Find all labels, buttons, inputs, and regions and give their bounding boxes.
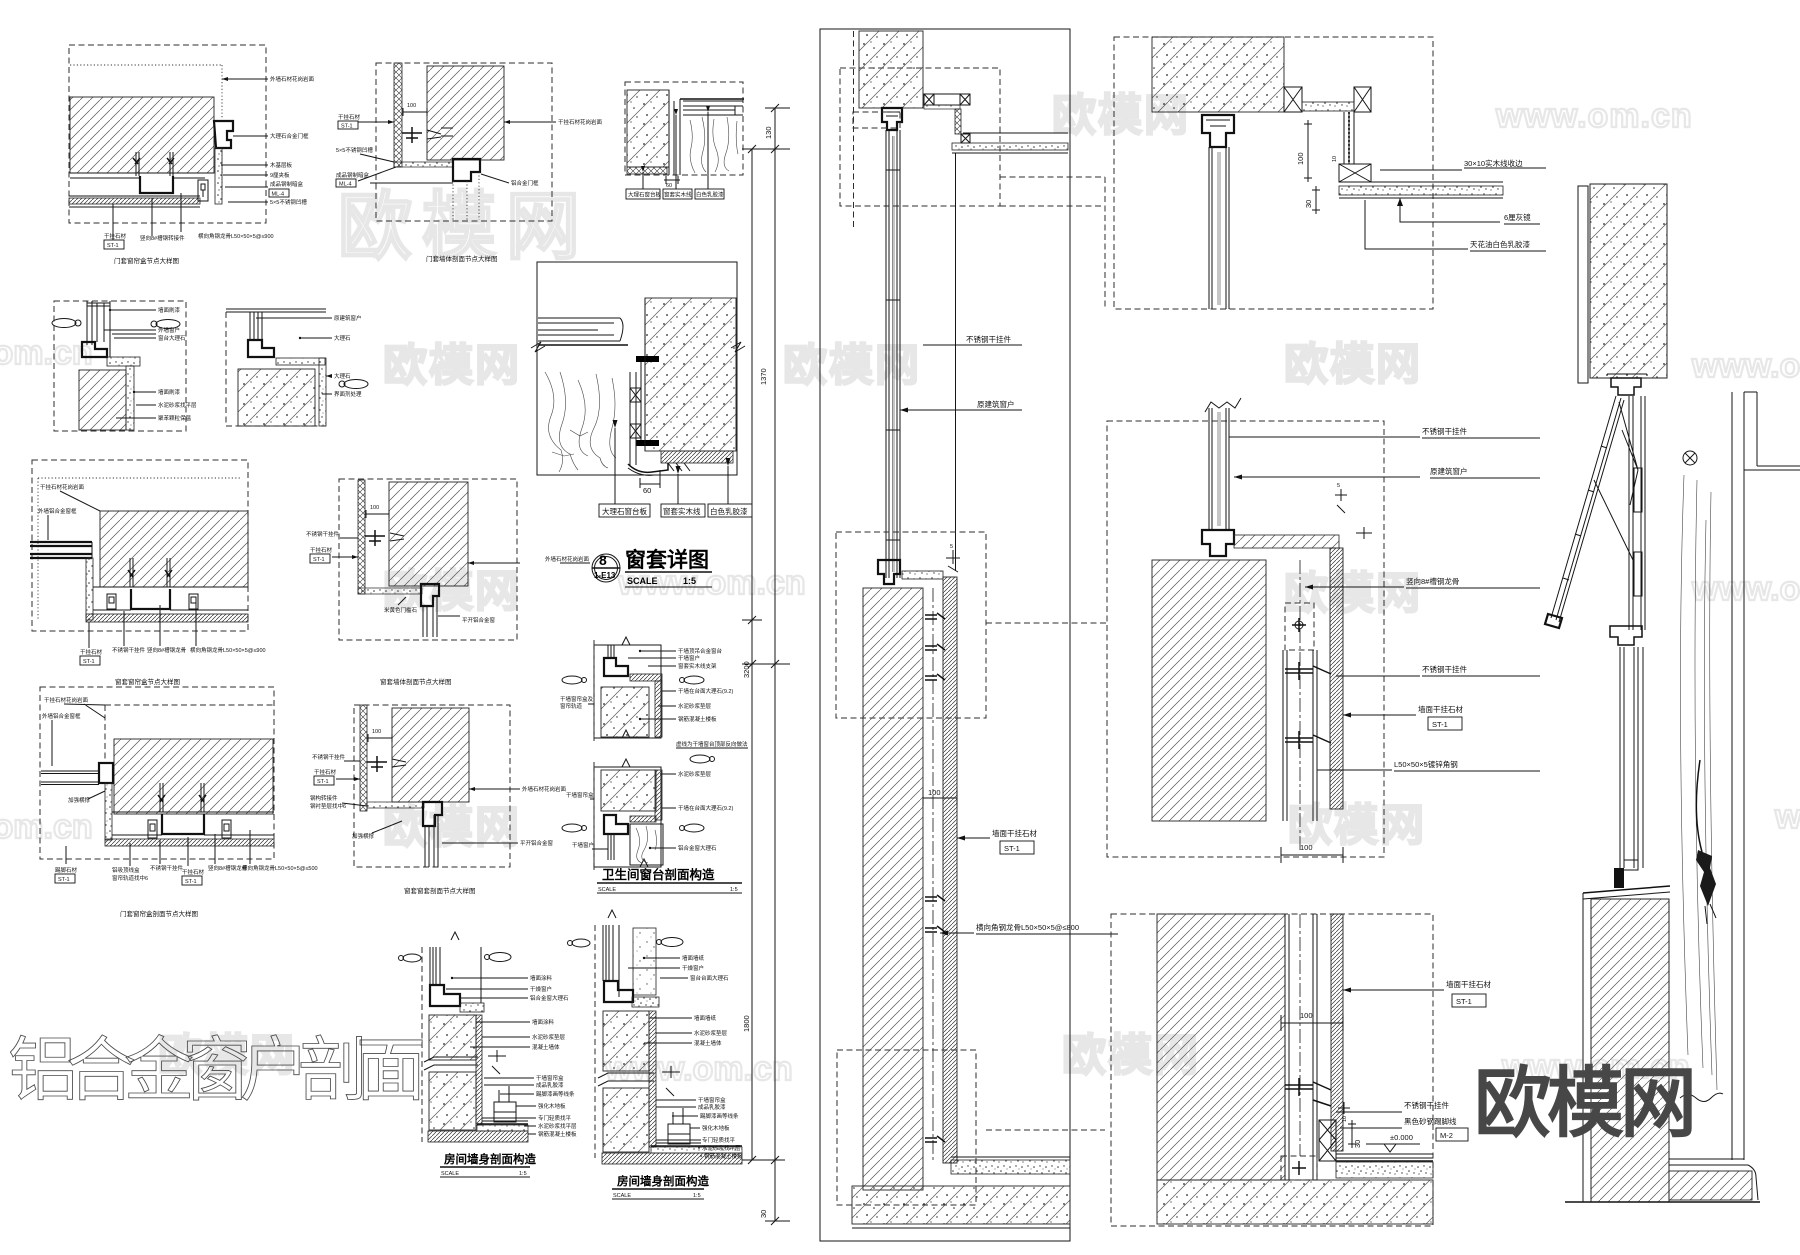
column B dim 30 rot [1312,186,1320,214]
D5 leaders right [256,318,332,394]
D14 concrete column upper [603,1011,649,1071]
svg-text:窗套详图: 窗套详图 [625,548,709,572]
column A floor screed band [951,1160,1070,1174]
D1 inner dotted datum [70,65,222,196]
svg-text:铝合金窗大理石: 铝合金窗大理石 [530,994,569,1002]
svg-text:不锈钢干挂件: 不锈钢干挂件 [150,864,184,872]
D9 dim 100 [366,510,389,518]
svg-text:窗帘轨道找中6: 窗帘轨道找中6 [112,874,148,882]
D1 curtain box channel [140,176,173,193]
D14 break gap [598,1073,654,1086]
column B ceiling cross block 2 [1354,87,1371,112]
svg-text:干挂石材: 干挂石材 [80,648,103,656]
D9 anchor hardware [365,530,385,546]
svg-text:1800: 1800 [742,1015,751,1032]
D12 lower frame [594,767,661,867]
svg-text:强化木地板: 强化木地板 [702,1124,730,1132]
D12 upper right labels [628,651,676,719]
D3 dim 60 [664,176,680,184]
column A mullion [886,130,900,578]
D2 wall hatched block [427,66,504,160]
D14 sill mortar band [632,997,659,1007]
DIMCHAIN [742,104,790,1225]
D3 bottom crosshatch strip [627,167,667,174]
svg-text:墙面刷漆: 墙面刷漆 [158,388,181,396]
D2 floor band [394,162,453,167]
D4 interior oval symbol [52,319,76,328]
column B mullion [1209,147,1229,309]
D8 window board left [30,542,92,558]
svg-text:30: 30 [759,1210,768,1218]
D5 dashed part-boundary [226,312,326,426]
svg-text:100: 100 [407,103,416,109]
elevation curtain rod end [1683,451,1697,465]
svg-text:www.om.cn: www.om.cn [0,334,93,372]
D7 title block circle [592,554,620,582]
BIGTEXT [8,1031,1693,1147]
column A dim 100 [923,790,957,806]
column B channel bolt [1292,618,1306,632]
svg-text:界面剂处理: 界面剂处理 [334,390,362,398]
column B label 6厘灰镜 [1400,198,1500,222]
svg-text:竖向8#槽钢龙骨: 竖向8#槽钢龙骨 [147,646,187,654]
svg-text:不锈钢干挂件: 不锈钢干挂件 [1404,1100,1449,1110]
elevation sill line [1583,886,1670,893]
detail D1 door-head curtain box : dashed boundary [69,45,266,223]
svg-text:横向角钢龙骨L50×50×5@≤500: 横向角钢龙骨L50×50×5@≤500 [242,864,318,872]
svg-text:房间墙身剖面构造: 房间墙身剖面构造 [617,1174,709,1188]
svg-text:干墙在台面大理石(9.2): 干墙在台面大理石(9.2) [678,687,733,695]
D2 door frame profile [453,159,480,181]
elevation base moulding [1748,1165,1758,1200]
svg-text:门套窗帘盒剖面节点大样图: 门套窗帘盒剖面节点大样图 [120,909,198,918]
svg-text:横向角钢龙骨L50×50×5@≤900: 横向角钢龙骨L50×50×5@≤900 [198,232,274,240]
svg-text:ST-1: ST-1 [83,659,95,665]
column A lower ceiling line [963,132,1068,134]
D12 lower concrete block [601,770,656,811]
svg-text:成品乳胶漆: 成品乳胶漆 [536,1081,564,1089]
svg-text:ST-1: ST-1 [58,877,70,883]
D4 exterior oval symbol [156,320,180,329]
elevation lower window lock [1614,868,1624,888]
dimension tick y1221 [765,1217,790,1225]
svg-text:木基层板: 木基层板 [270,161,293,169]
svg-text:1:5: 1:5 [730,887,738,893]
elevation lower window [1620,647,1643,868]
column B floor lines [1336,1154,1433,1158]
D7 sill nosing profile [628,463,668,472]
elevation curtain folds [1681,475,1717,1090]
D5 frame profile [248,340,274,357]
D12 lower oval [690,755,710,763]
D1 door jamb dotted strip [215,148,222,204]
D11 door frame profile [423,802,442,826]
svg-text:天花油白色乳胶漆: 天花油白色乳胶漆 [1470,239,1530,249]
column B ceiling cross block 3 [1339,164,1371,182]
D10 window board left [41,771,99,785]
column A cavity centerline [932,588,934,1160]
svg-text:L50×50×5镀锌角钢: L50×50×5镀锌角钢 [1394,759,1458,769]
svg-text:干挂石材: 干挂石材 [310,546,333,554]
svg-text:加强横撑: 加强横撑 [68,796,91,804]
svg-text:外墙窗户: 外墙窗户 [158,326,180,334]
svg-text:不锈钢干挂件: 不锈钢干挂件 [112,646,146,654]
elevation opened sash [1551,396,1624,622]
svg-text:干墙窗帘盒: 干墙窗帘盒 [698,1096,726,1104]
D8 curtain channel [131,589,170,609]
column B middle concrete block [1152,560,1266,821]
svg-text:混凝土墙体: 混凝土墙体 [532,1043,560,1051]
svg-text:钢衬垫层找中6: 钢衬垫层找中6 [310,802,346,810]
D9 right leader [468,562,520,564]
svg-text:平开铝合金窗: 平开铝合金窗 [462,616,496,624]
detail D5 window jamb plan B : top wall line [226,309,326,312]
column A top dashed box [840,68,1000,206]
svg-text:窗套窗套剖面节点大样图: 窗套窗套剖面节点大样图 [404,886,476,895]
svg-text:竖向8#槽钢龙骨: 竖向8#槽钢龙骨 [1406,576,1459,586]
detail D4 window jamb plan : dashed boundary [54,301,186,431]
svg-text:SCALE: SCALE [598,887,616,893]
D13 floor lines [482,1118,528,1121]
COLB [1107,37,1546,1226]
D8 floor hatch strip [86,614,248,622]
D3 label boxes [626,189,660,199]
column B bottom concrete block [1157,914,1285,1180]
D2 stone strip crosshatch [394,63,402,167]
svg-text:5: 5 [950,544,953,550]
column B bottom dashed box [1111,914,1433,1226]
svg-text:5×5不锈钢凹槽: 5×5不锈钢凹槽 [270,198,307,206]
D1 wall hatched block [70,97,214,173]
D9 door leaf lines [423,596,437,637]
svg-text:100: 100 [928,788,941,797]
D14 floor screed band [651,1147,742,1153]
D11 door leaf lines [425,815,438,867]
D8 jamb speckle strip [86,558,93,620]
svg-text:强化木地板: 强化木地板 [538,1102,566,1110]
ROW4 [40,637,748,918]
D10 jamb speckle strip [105,783,112,840]
svg-text:钢筋混凝土楼板: 钢筋混凝土楼板 [704,1152,743,1160]
D2 left leaders [358,122,453,183]
svg-text:成品乳胶漆: 成品乳胶漆 [698,1103,726,1111]
D5 exterior oval [344,380,368,389]
D12 lower window frame profile [604,815,628,834]
D13 concrete column lower [429,1072,476,1130]
D4 window frame lines [87,301,110,357]
column A bottom window head profile [878,560,900,584]
D12 lower labels [650,774,676,848]
svg-text:干燥窗户: 干燥窗户 [682,964,704,972]
svg-text:30: 30 [1304,200,1313,208]
column B ceiling cross block 1 [1284,87,1302,112]
column B middle stone strip [1330,548,1343,809]
D3 sill board profile [683,101,743,115]
D14 small dims [662,1066,680,1096]
svg-text:大理石窗台板: 大理石窗台板 [628,191,662,199]
column A window head profile [882,108,902,130]
detail D11 door jamb C : dashed boundary [354,705,510,867]
svg-text:踢脚漆画等线条: 踢脚漆画等线条 [536,1090,575,1098]
D11 wall hatched block [392,708,469,802]
D1 ceiling lines [70,173,214,178]
svg-text:100: 100 [372,729,381,735]
column B bottom labels [1343,989,1444,991]
D7 sill hatched band [661,451,733,463]
svg-text:不锈钢干挂件: 不锈钢干挂件 [306,530,340,538]
svg-text:墙面刷漆: 墙面刷漆 [158,306,181,314]
svg-text:水泥砂浆垫层: 水泥砂浆垫层 [678,702,712,710]
elevation base top lines [1669,1159,1748,1165]
svg-text:干燥窗户: 干燥窗户 [530,985,552,993]
column B floor screed [1336,1162,1433,1178]
svg-text:5: 5 [1337,483,1340,489]
D10 floor hatch strip [105,839,274,846]
svg-text:ST-1: ST-1 [185,879,197,885]
column B middle dim 100 [1281,847,1343,863]
D13 concrete column upper [429,1015,476,1060]
svg-text:ST-1: ST-1 [317,779,329,785]
column A ceiling mirror band [952,143,1068,150]
D2 anchor hardware [402,127,422,143]
column B label 30x10实木线收边 [1380,169,1462,171]
svg-text:平开铝合金窗: 平开铝合金窗 [520,839,554,847]
D9 door frame profile [421,584,439,606]
svg-text:干墙窗户: 干墙窗户 [572,841,594,849]
D4 wall hatch block [79,370,126,430]
svg-text:外墙石材花岗岩面: 外墙石材花岗岩面 [545,555,590,563]
svg-text:原建筑窗户: 原建筑窗户 [334,314,362,322]
svg-text:30×10实木线收边: 30×10实木线收边 [1464,158,1523,168]
svg-text:钢筋混凝土楼板: 钢筋混凝土楼板 [678,715,717,723]
svg-text:干墙窗帘盒: 干墙窗帘盒 [566,791,594,799]
D11 right labels [469,788,520,790]
elevation lower pier [1591,899,1669,1202]
D12 upper L hatch band [630,674,662,681]
column B ceiling band 1 [1302,102,1354,111]
D1 door frame profile [214,121,233,148]
ROW2 [52,262,752,587]
column B ceiling band 2 [1339,186,1503,195]
dimension tick y108 [765,104,790,112]
column B middle channel steel [1283,650,1317,821]
svg-text:www.om.cn: www.om.cn [1495,97,1693,135]
D13 floor screed band [477,1125,528,1131]
D13 floor slab [428,1131,528,1142]
svg-text:100: 100 [370,505,379,511]
svg-text:100: 100 [1300,843,1313,852]
svg-text:1:5: 1:5 [693,1193,701,1199]
D9 stone strip crosshatch [358,480,365,594]
D12 lower marble block [630,824,663,865]
svg-text:卫生间窗台剖面构造: 卫生间窗台剖面构造 [602,867,715,882]
D14 window lines [603,925,619,997]
D14 exterior oval [661,938,683,947]
svg-text:干挂石材: 干挂石材 [104,232,127,240]
svg-text:大理石窗台板: 大理石窗台板 [602,506,647,516]
D7 label box 窗套实木线 [661,504,705,517]
D14 floor lines [656,1140,701,1143]
D13 break gap [424,1057,478,1070]
svg-text:ST-1: ST-1 [1004,844,1020,853]
column B middle cavity centerline [1299,560,1301,850]
elevation window frame verticals [1629,396,1645,630]
detail D7 window casing 窗套详图 : outer frame [537,262,737,475]
svg-text:成品钢制暗盒: 成品钢制暗盒 [336,171,370,179]
D14 labels right [628,958,702,1156]
D11 floor band [367,802,424,808]
svg-text:钢筋混凝土楼板: 钢筋混凝土楼板 [538,1130,577,1138]
D10 curtain channel [162,814,204,834]
svg-text:130: 130 [764,126,773,139]
svg-text:干墙顶吊合金窗台: 干墙顶吊合金窗台 [678,647,723,655]
D14 floor slab [602,1153,742,1164]
D1 access panel symbol [198,180,208,201]
D3 marble veins [690,117,738,173]
D7 concrete block [645,298,736,451]
svg-text:60: 60 [643,486,651,495]
svg-text:水泥砂浆找平层: 水泥砂浆找平层 [158,401,197,409]
D3 label leaders [643,112,708,189]
svg-text:欧模网: 欧模网 [1474,1061,1693,1147]
column A mullion head dashed box [853,112,900,128]
svg-text:干墙窗帘盒及: 干墙窗帘盒及 [560,695,594,703]
column A slab bottom line [852,1227,1070,1229]
D7 break marks [531,342,745,352]
D1 floor speckled strip [69,198,200,204]
svg-text:原建筑窗户: 原建筑窗户 [1430,466,1468,476]
svg-text:M-2: M-2 [1440,1131,1453,1140]
svg-text:混凝土墙体: 混凝土墙体 [694,1039,722,1047]
D8 wall hatched block [100,511,248,587]
dimension tick y1160 [742,1156,785,1164]
D8 inner dotted datum [38,478,240,620]
svg-text:9厘夹板: 9厘夹板 [270,171,290,179]
D8 track anchors [128,570,172,577]
elevation lower pier left edge [1582,893,1584,1202]
column A stone strip [943,577,957,1163]
svg-text:10: 10 [1342,1116,1348,1122]
column B dim 30 [1348,1120,1356,1148]
svg-text:1:5: 1:5 [519,1171,527,1177]
svg-text:1:5: 1:5 [683,576,696,586]
svg-text:ST-1: ST-1 [1432,720,1448,729]
RIGHTELEV [1545,184,1800,1202]
D4 frame profile [82,342,107,357]
WATERMARKS [0,91,1800,1088]
svg-text:欧模网: 欧模网 [383,341,521,390]
D11 stone strip crosshatch [360,705,367,811]
column A anchor bolts [925,613,945,1142]
D10 inner dashed datum [105,705,274,760]
D14 masonry dotted block [633,928,656,995]
svg-text:墙面干挂石材: 墙面干挂石材 [992,828,1037,838]
svg-text:窗台大理石: 窗台大理石 [158,334,186,342]
svg-text:铝合金窗户剖面: 铝合金窗户剖面 [8,1031,423,1109]
svg-text:干挂石材花岗岩面: 干挂石材花岗岩面 [558,118,603,126]
column B bottom dim 100 [1281,1015,1343,1031]
D14 plaster strip [649,1011,656,1147]
svg-text:ST-1: ST-1 [341,124,353,130]
dimension main line [774,108,776,1221]
D13 window lines [430,947,481,1003]
D7 label box 白色乳胶漆 [708,504,752,517]
detail D8 curtain box : dashed boundary [32,460,248,631]
elevation right jamb lines [1732,392,1744,1160]
svg-text:窗套实木线支架: 窗套实木线支架 [678,662,717,670]
svg-text:门套窗帘盒节点大样图: 门套窗帘盒节点大样图 [114,256,179,265]
svg-text:干挂石材: 干挂石材 [338,113,361,121]
svg-text:水泥砂浆垫层: 水泥砂浆垫层 [532,1033,566,1041]
column A bottom dashed box [837,1050,976,1205]
D11 dim 100 [368,734,392,742]
svg-text:SCALE: SCALE [613,1193,631,1199]
svg-text:窗帘轨道: 窗帘轨道 [560,702,583,710]
D7 marble face veins [545,372,616,472]
D10 frame block [99,763,113,783]
D7 label box 大理石窗台板 [599,504,650,517]
dimension tick y149 [742,145,790,153]
svg-text:www.om.cn: www.om.cn [1774,798,1800,836]
D12 upper window frame profile [604,658,628,676]
elevation head frame [1611,378,1641,395]
svg-text:干墙窗户: 干墙窗户 [678,654,700,662]
svg-text:横向角钢龙骨L50×50×5@≤900: 横向角钢龙骨L50×50×5@≤900 [190,646,266,654]
column A bulkhead face line [955,153,957,571]
svg-text:虚线为干墙窗台顶部反向做法: 虚线为干墙窗台顶部反向做法 [676,740,748,748]
dimension tick y664 [742,660,790,668]
detail D13 room wall section : dashed edge [421,947,423,1142]
svg-text:欧模网: 欧模网 [383,803,521,852]
D13 frame profile [430,985,460,1006]
svg-text:3200: 3200 [742,661,751,678]
column A soffit band [923,94,960,105]
svg-text:墙面干挂石材: 墙面干挂石材 [1418,704,1463,714]
column B middle hatch band L [1234,535,1339,548]
elevation base block [1669,1171,1752,1200]
svg-text:ST-1: ST-1 [1456,997,1472,1006]
D1 curtain track anchors [136,152,173,176]
svg-text:ML-4: ML-4 [339,182,352,188]
column A link dashed bottom [986,1129,1105,1131]
D8 ceiling lines [93,587,248,610]
D8 bottom labels [89,600,196,648]
detail D12 bathroom sill : upper frame [594,645,661,738]
svg-text:不锈钢干挂件: 不锈钢干挂件 [966,334,1011,344]
svg-text:水泥砂浆找平层: 水泥砂浆找平层 [702,1144,741,1152]
column B channel bolts mid [1285,662,1331,749]
dimension secondary line [751,149,753,1160]
D12 upper concrete block [601,687,649,737]
svg-text:专门轻质找平: 专门轻质找平 [538,1114,572,1122]
svg-text:欧模网: 欧模网 [1284,340,1422,389]
svg-text:窗套实木线: 窗套实木线 [664,191,692,199]
elevation top-right step [1744,392,1800,470]
D13 skirting unit [494,1102,516,1122]
D12 dashed edge [593,640,595,742]
D12 upper break mark [622,637,630,738]
column A soffit drop strip [955,109,961,134]
column A mid dashed box [836,532,986,718]
detail D10 window head curtain box : dashed boundary [40,687,274,859]
svg-text:±0.000: ±0.000 [1390,1133,1413,1142]
D9 wall hatched block [389,482,468,586]
column A top concrete block [859,31,923,108]
svg-text:ST-1: ST-1 [313,557,325,563]
D2 right label [504,121,556,123]
D4 sill mortar band [107,357,140,366]
D4 plaster strip [126,366,134,430]
